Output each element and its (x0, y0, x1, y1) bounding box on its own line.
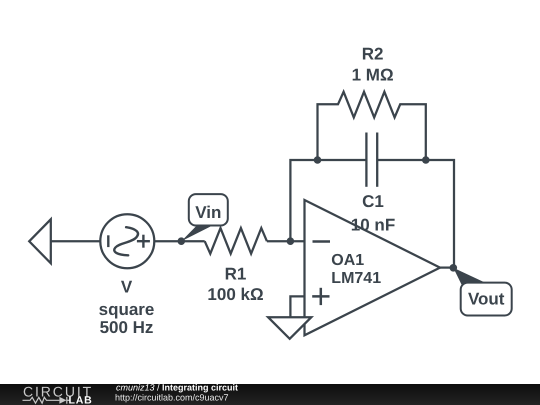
op-amp OA1 triangle (305, 200, 441, 335)
node Vin label box (189, 194, 228, 225)
capacitor C1 plates (365, 133, 367, 187)
wire R1 to minus node (267, 240, 305, 242)
ground (268, 317, 311, 339)
svg-text:http://circuitlab.com/c9uacv7: http://circuitlab.com/c9uacv7 (115, 392, 229, 402)
op-amp plus marker (312, 295, 329, 298)
source plus sign (137, 240, 150, 242)
svg-text:cmuniz13 / Integrating circuit: cmuniz13 / Integrating circuit (116, 383, 238, 393)
svg-text:LAB: LAB (69, 395, 93, 405)
svg-text:10 nF: 10 nF (351, 216, 395, 235)
CircuitLab logo diode triangle (59, 397, 66, 404)
node Vin junction dot (178, 237, 186, 245)
wire op-amp output (440, 266, 454, 268)
wire arrow to source (51, 240, 101, 242)
node feedback right dot (422, 156, 430, 164)
node output dot (450, 264, 458, 272)
node R1/op-amp junction dot (287, 237, 295, 245)
node Vout label box (461, 283, 512, 316)
svg-text:C1: C1 (362, 192, 384, 211)
svg-text:V: V (121, 278, 133, 297)
source squiggle symbol (114, 227, 138, 255)
svg-text:square: square (99, 300, 155, 319)
Vin flag pointer (181, 226, 212, 241)
svg-text:100 kΩ: 100 kΩ (207, 285, 263, 304)
voltage source V1 circle (100, 214, 154, 268)
svg-text:Vout: Vout (468, 290, 505, 309)
svg-text:R1: R1 (225, 265, 247, 284)
svg-text:LM741: LM741 (331, 270, 381, 287)
source minus terminal bar (107, 235, 109, 247)
wire plus input (290, 296, 304, 317)
wire feedback left leg (290, 160, 366, 241)
input port arrow (29, 219, 51, 263)
Vout flag pointer (453, 268, 487, 285)
svg-text:Vin: Vin (195, 203, 221, 222)
wire source to R1 (154, 240, 204, 242)
footer bar (0, 384, 540, 405)
op-amp minus marker (313, 240, 331, 243)
svg-text:500 Hz: 500 Hz (100, 318, 154, 337)
wire feedback right segment (377, 160, 454, 268)
svg-text:OA1: OA1 (331, 252, 364, 269)
node feedback left dot (314, 156, 322, 164)
resistor R2 loop with zigzag (318, 92, 426, 160)
svg-text:1 MΩ: 1 MΩ (352, 66, 394, 85)
resistor R1 zigzag (205, 228, 267, 254)
CircuitLab logo squiggle (23, 397, 71, 404)
svg-text:R2: R2 (362, 44, 384, 63)
